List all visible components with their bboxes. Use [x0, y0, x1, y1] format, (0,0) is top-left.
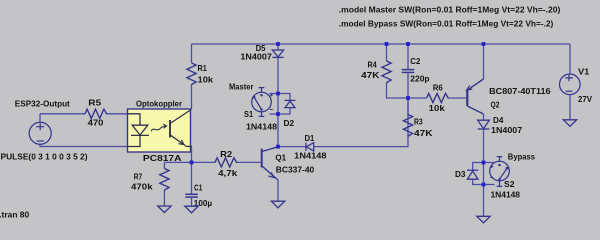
wire top rail: [192, 43, 571, 45]
svg-text:.tran 80: .tran 80: [0, 210, 29, 220]
ground V1: [563, 120, 576, 127]
wire S2 control stubs: [484, 162, 495, 164]
diode D5 1N4007: [277, 44, 279, 50]
node junction Q2 emitter top rail: [482, 42, 486, 46]
resistor R5: [40, 113, 85, 115]
svg-text:D4: D4: [493, 116, 504, 125]
svg-text:ESP32-Output: ESP32-Output: [15, 98, 70, 108]
svg-text:C1: C1: [194, 184, 203, 193]
ground R7: [158, 206, 171, 213]
svg-text:C2: C2: [410, 57, 420, 66]
wire Q2 emitter up: [483, 44, 485, 79]
svg-text:R3: R3: [414, 118, 423, 127]
diode D3 1N4148: [473, 163, 484, 171]
svg-text:S1: S1: [244, 110, 254, 119]
diode D2 1N4148: [278, 94, 290, 101]
ground S2: [477, 216, 490, 223]
node junction R4 / C2 / R3 / R6: [406, 96, 410, 100]
svg-text:470k: 470k: [131, 183, 153, 192]
svg-text:Bypass: Bypass: [508, 151, 535, 161]
wire Q2 collector to D4: [483, 114, 485, 120]
capacitor C2: [407, 44, 409, 69]
svg-text:R1: R1: [198, 64, 208, 73]
resistor R7: [163, 162, 165, 168]
diode D1 1N4148: [278, 146, 306, 148]
svg-text:R5: R5: [88, 98, 101, 107]
svg-text:47K: 47K: [361, 71, 379, 80]
svg-text:Q1: Q1: [275, 154, 286, 163]
svg-text:.model Bypass SW(Ron=0.01 Roff: .model Bypass SW(Ron=0.01 Roff=1Meg Vt=2…: [339, 19, 554, 29]
svg-text:Master: Master: [229, 81, 254, 91]
resistor R4: [386, 44, 388, 61]
resistor R6: [408, 97, 427, 99]
svg-text:R6: R6: [433, 84, 443, 93]
node junction S1 control + / D2: [276, 92, 280, 96]
wire D4 down to ground: [483, 129, 485, 216]
node junction S2 control - / D3: [482, 183, 486, 187]
node junction C2 top rail: [406, 42, 410, 46]
svg-text:R2: R2: [220, 150, 233, 159]
diode D4 1N4007: [478, 120, 490, 129]
node junction Q1 collector / D1: [276, 145, 280, 149]
wire V1 bottom: [569, 94, 571, 119]
svg-text:220p: 220p: [410, 75, 429, 84]
svg-text:D3: D3: [455, 170, 466, 179]
svg-text:PC817A: PC817A: [143, 153, 182, 163]
svg-text:D5: D5: [256, 44, 266, 53]
svg-text:1N4007: 1N4007: [240, 53, 272, 62]
wire D1 to R3: [315, 98, 409, 147]
svg-text:47K: 47K: [414, 129, 433, 138]
svg-text:BC807-40T116: BC807-40T116: [489, 87, 551, 96]
svg-text:10k: 10k: [429, 104, 446, 113]
ground Q1: [271, 201, 284, 208]
voltage source V1: [560, 74, 581, 95]
node junction S1 control - / D2: [276, 112, 280, 116]
svg-text:4,7k: 4,7k: [218, 169, 238, 178]
optocoupler U1 PC817A box: [128, 109, 191, 152]
wire base row: [164, 161, 215, 163]
ground C1: [185, 206, 198, 213]
svg-text:27V: 27V: [578, 95, 593, 104]
node junction R4 top rail: [385, 42, 389, 46]
optocoupler phototransistor: [170, 110, 192, 146]
svg-text:1N4148: 1N4148: [491, 191, 521, 200]
wire Q1 emitter: [277, 180, 279, 201]
node junction opto emitter / R2 / R7 / C1: [190, 161, 194, 165]
wire S1 control stubs: [270, 93, 279, 95]
svg-text:PULSE(0 3 1 0 0 3 5 2): PULSE(0 3 1 0 0 3 5 2): [1, 151, 88, 161]
svg-text:1N4148: 1N4148: [294, 152, 327, 161]
svg-text:R4: R4: [368, 61, 378, 70]
resistor R2: [215, 158, 237, 167]
svg-text:D1: D1: [305, 134, 315, 143]
svg-text:470: 470: [88, 119, 104, 128]
resistor R3: [407, 98, 409, 115]
optocoupler LED: [128, 114, 150, 147]
svg-text:S2: S2: [504, 180, 515, 189]
transistor Q2 BC807-40: [467, 79, 484, 114]
transistor Q1 BC337-40: [262, 147, 278, 180]
wire opto emitter to node: [191, 146, 193, 162]
svg-text:D2: D2: [284, 119, 295, 128]
svg-text:Q2: Q2: [491, 101, 500, 110]
optocoupler light arrow: [151, 124, 167, 131]
node junction D5 top rail: [276, 42, 280, 46]
svg-text:10k: 10k: [198, 76, 214, 85]
svg-text:BC337-40: BC337-40: [276, 166, 315, 175]
resistor R1: [191, 44, 193, 63]
node junction S2 control + / D3: [482, 161, 486, 165]
wire V1 top: [569, 44, 571, 74]
svg-text:Optokoppler: Optokoppler: [136, 98, 183, 108]
svg-text:R7: R7: [134, 172, 143, 181]
svg-text:.model Master SW(Ron=0.01 Roff: .model Master SW(Ron=0.01 Roff=1Meg Vt=2…: [339, 4, 561, 14]
capacitor C1: [191, 162, 193, 194]
svg-text:1N4148: 1N4148: [246, 123, 277, 132]
wire D5 to Q1 collector: [277, 57, 279, 146]
svg-text:V1: V1: [578, 67, 590, 76]
svg-text:1N4007: 1N4007: [491, 126, 523, 135]
